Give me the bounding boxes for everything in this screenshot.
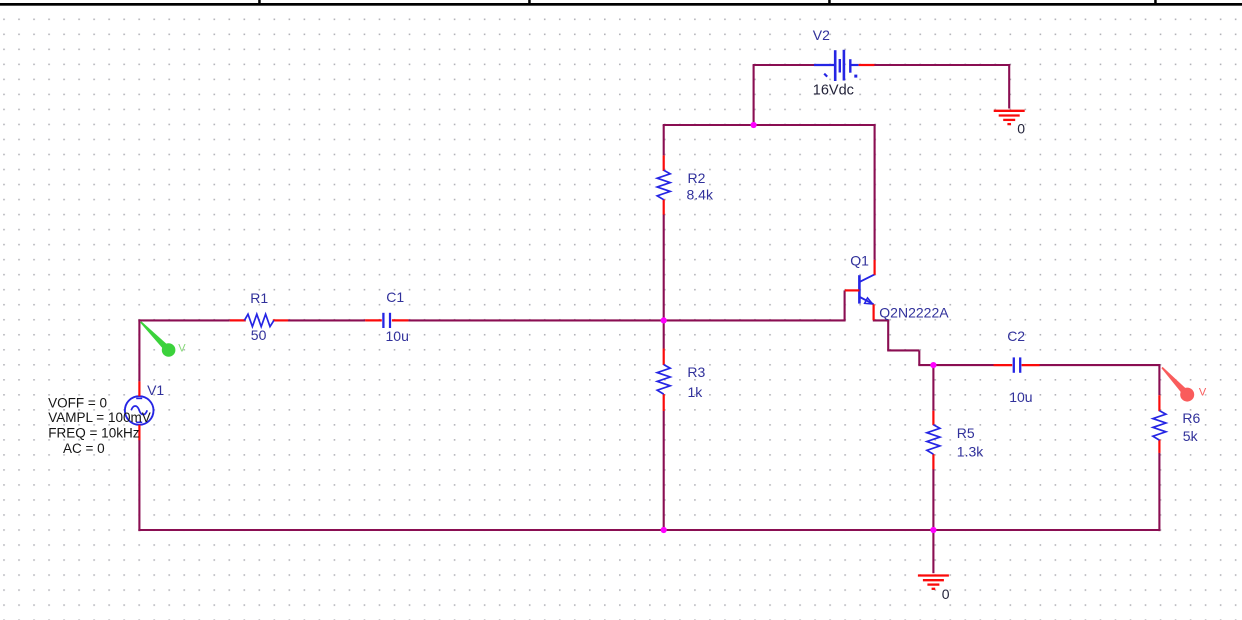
svg-text:R3: R3 (687, 364, 705, 380)
wire: R5 top vertical (932, 365, 934, 411)
wire: V2 net, top rail y=65 left segment (753, 64, 815, 66)
wire: input rail y=320.4 V1 corner to R1 (138, 319, 229, 321)
svg-text:FREQ = 10kHz: FREQ = 10kHz (48, 426, 139, 441)
Q1 base pin (red) (845, 289, 860, 291)
voltage probe (red) at output node (1161, 367, 1194, 402)
voltage probe (green) at input node (140, 321, 175, 356)
svg-text:R2: R2 (688, 170, 706, 186)
svg-text:VOFF = 0: VOFF = 0 (48, 396, 107, 411)
svg-text:VAMPL = 100mV: VAMPL = 100mV (48, 410, 150, 425)
wire: V1 top vertical (138, 319, 140, 381)
voltage source V2 16Vdc battery symbol (814, 50, 859, 81)
svg-text:C1: C1 (386, 289, 404, 305)
svg-text:10u: 10u (1009, 389, 1032, 405)
svg-text:V: V (1199, 387, 1207, 399)
svg-text:C2: C2 (1007, 328, 1025, 344)
toolbar separator tick (828, 0, 831, 4)
capacitor C1 pins (red) (365, 319, 382, 321)
svg-text:Q1: Q1 (850, 252, 869, 268)
svg-text:R6: R6 (1182, 410, 1200, 426)
resistor R5 body (927, 425, 940, 455)
wire: VCC rail y=125 (663, 124, 876, 126)
wire: emitter staircase vertical x=888.2 (887, 320, 889, 350)
voltage source V1 (VSIN) body (125, 396, 154, 425)
svg-text:V2: V2 (813, 27, 830, 43)
svg-text:0: 0 (942, 586, 950, 602)
svg-text:8.4k: 8.4k (687, 187, 714, 203)
wire: V2 left vertical drop to rail (753, 65, 755, 125)
wire: collector drop from VCC rail (874, 125, 876, 260)
resistor R6 pins (red) (1158, 395, 1160, 411)
transistor Q1 Q2N2222A body (859, 274, 874, 304)
svg-text:V: V (178, 342, 186, 354)
resistor R2 pins (red) (663, 155, 665, 171)
svg-text:10u: 10u (386, 328, 409, 344)
ground 0 (bottom) (918, 576, 949, 589)
junction: ground rail / R5 ground stem (930, 527, 936, 533)
wire: base jog vertical x=844.6 (844, 290, 846, 320)
resistor R5 pins (red) (932, 411, 934, 425)
junction: base node / R2 R3 (661, 317, 667, 323)
wire: R6 top vertical (1158, 365, 1160, 395)
wire: R6 bottom vertical (1158, 453, 1160, 531)
svg-text:0: 0 (1017, 120, 1025, 136)
svg-text:R5: R5 (957, 425, 975, 441)
toolbar separator tick (258, 0, 261, 4)
wire: V2 right lead to ground corner (874, 64, 1010, 66)
svg-text:AC = 0: AC = 0 (63, 441, 105, 456)
ground 0 (top right) (994, 111, 1025, 124)
svg-text:R1: R1 (250, 290, 268, 306)
V2 pin (red) (859, 64, 875, 66)
toolbar separator tick (528, 0, 531, 4)
wire: C1 to base jog (408, 319, 845, 321)
wire: vertical into ground 0 (top right) (1008, 64, 1010, 109)
resistor R3 body (657, 365, 670, 395)
V1 top pin (red) (138, 381, 140, 396)
Q1 collector pin (red) (873, 260, 875, 275)
Q1 emitter pin (red) (872, 304, 874, 320)
wire: V1 bottom vertical (138, 440, 140, 531)
wire: R1 to C1 (288, 319, 365, 321)
svg-text:5k: 5k (1183, 428, 1199, 444)
wire: emitter node horizontal y=320.4 (873, 319, 889, 321)
resistor R6 body (1153, 411, 1166, 441)
resistor R2 body (657, 170, 670, 200)
junction: ground rail / R3 (661, 527, 667, 533)
wire: R5 bottom vertical (932, 469, 934, 531)
wire: ground rail y=530 (138, 529, 1160, 531)
wire: R2 bottom to base-node junction (663, 214, 665, 321)
toolbar separator tick (1154, 0, 1157, 4)
svg-text:50: 50 (251, 327, 267, 343)
svg-text:Q2N2222A: Q2N2222A (879, 305, 949, 321)
capacitor C2 pins (red) (994, 364, 1013, 366)
capacitor C1 plates (382, 313, 384, 328)
svg-text:V1: V1 (147, 382, 164, 398)
resistor R1 body (244, 314, 274, 326)
toolbar bottom border (0, 3, 1242, 6)
junction: emitter node / R5 (930, 362, 936, 368)
wire: stem into ground 0 (bottom) (932, 530, 934, 573)
junction: VCC rail / V2 (751, 122, 757, 128)
wire: emitter staircase horizontal y=350.4 (887, 349, 919, 351)
svg-text:1k: 1k (688, 384, 704, 400)
svg-text:16Vdc: 16Vdc (813, 83, 854, 99)
wire: R3 bottom vertical (663, 411, 665, 530)
wire: R3 top vertical (663, 320, 665, 348)
wire: output rail y=365.1 to C2 (918, 364, 993, 366)
svg-text:1.3k: 1.3k (957, 444, 984, 460)
resistor R3 pins (red) (663, 349, 665, 366)
capacitor C2 plates (1013, 357, 1015, 372)
wire: R2 top vertical (663, 125, 665, 155)
V1 bottom pin (red) (138, 425, 140, 440)
wire: C2 to output corner (1039, 364, 1160, 366)
resistor R1 pins (red) (230, 319, 246, 321)
wire: emitter staircase vertical x=919.3 (918, 350, 920, 365)
